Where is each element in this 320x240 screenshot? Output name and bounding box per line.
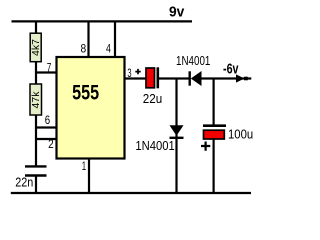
IC U1 555 timer (57, 57, 125, 159)
wire 22n to ground rail (35, 177, 37, 194)
capacitor C1 22u electrolytic body (146, 67, 158, 88)
wire output node vertical (213, 79, 215, 126)
capacitor C2 100u electrolytic (203, 126, 226, 139)
wire 100u to ground rail (213, 139, 215, 193)
pin label 7 (47, 62, 52, 74)
svg-text:6: 6 (45, 113, 51, 127)
value label 1N4001 (series diode) (176, 54, 210, 68)
diode D2 1N4001 series (cathode left) (190, 71, 202, 86)
value label 100u (228, 127, 253, 142)
supply label 9v (169, 4, 185, 21)
svg-text:22u: 22u (143, 91, 163, 106)
svg-text:555: 555 (72, 81, 99, 104)
wire pin 2 (36, 138, 57, 140)
pin label 1 (82, 159, 87, 173)
svg-text:3: 3 (127, 66, 131, 80)
pin label 2 (48, 137, 54, 151)
svg-text:1: 1 (82, 159, 87, 173)
polarity plus for capacitor 100u (201, 142, 210, 151)
svg-text:7: 7 (47, 62, 52, 74)
value label 1N4001 (shunt diode) (135, 139, 174, 153)
wire 22u to diode (159, 77, 189, 79)
svg-text:22n: 22n (15, 175, 33, 189)
pin label 6 (45, 113, 51, 127)
output arrow head (236, 74, 245, 82)
svg-text:9v: 9v (169, 4, 185, 21)
svg-text:4: 4 (106, 41, 111, 55)
polarity plus for capacitor 22u (135, 69, 140, 74)
svg-text:1N4001: 1N4001 (135, 139, 174, 153)
pin label 3 (127, 66, 131, 80)
wire left bus vertical (35, 21, 37, 166)
wire pin 8 (87, 21, 89, 57)
output label -6v (223, 61, 239, 78)
svg-text:-6v: -6v (223, 61, 239, 78)
capacitor C3 22n (25, 166, 47, 175)
value label 22n (15, 175, 33, 189)
svg-text:1N4001: 1N4001 (176, 54, 210, 68)
pin label 8 (81, 41, 87, 55)
wire pin 1 (88, 159, 90, 194)
wire pin 4 (114, 21, 116, 57)
wire diode to output terminal (202, 77, 252, 79)
svg-text:2: 2 (48, 137, 54, 151)
wire pin 7 (36, 71, 57, 73)
diode D1 1N4001 shunt (cathode down) (170, 125, 184, 138)
svg-text:100u: 100u (228, 127, 253, 142)
resistor 47k (30, 84, 42, 115)
value label 22u (143, 91, 163, 106)
svg-text:8: 8 (81, 41, 87, 55)
wire top supply rail (12, 20, 193, 22)
wire node A vertical (175, 79, 177, 194)
wire pin 6 (36, 126, 57, 128)
wire pin 3 output (125, 77, 146, 79)
pin label 4 (106, 41, 111, 55)
svg-text:47k: 47k (30, 91, 42, 109)
svg-text:4k7: 4k7 (30, 39, 42, 56)
resistor 4k7 (30, 33, 42, 62)
ground bottom rail (11, 192, 251, 194)
